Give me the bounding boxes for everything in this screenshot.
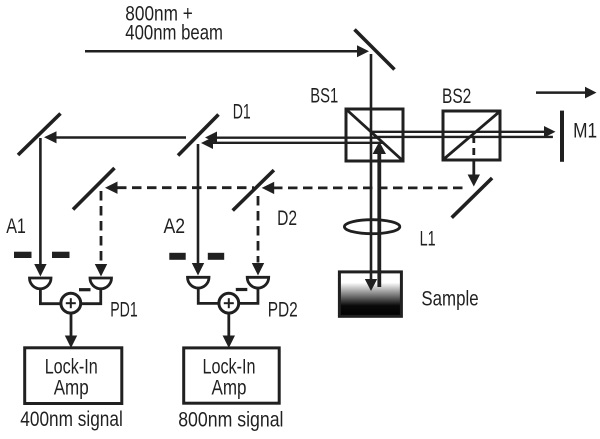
arrowhead up at BS1 diagonal	[373, 142, 386, 155]
svg-text:400nm signal: 400nm signal	[20, 408, 123, 431]
sample cell	[339, 272, 401, 316]
svg-text:Amp: Amp	[212, 376, 247, 399]
wire: left vertical beam (400nm arm)	[39, 138, 42, 265]
aperture A1 right bar	[52, 252, 70, 258]
wire: dashed segment inside BS2 going down	[472, 136, 475, 160]
svg-text:PD2: PD2	[268, 299, 298, 322]
mirror: pickoff below BS2	[452, 178, 492, 218]
svg-text:D1: D1	[233, 101, 251, 124]
svg-text:BS2: BS2	[442, 85, 471, 108]
mirror: small pickoff mirror (dashed 800nm arm, left)	[73, 168, 115, 210]
wire: dashed vertical into PD1 right detector	[100, 191, 103, 263]
svg-text:Lock-In: Lock-In	[203, 355, 256, 378]
dichroic mirror D1	[178, 115, 219, 156]
svg-text:800nm signal: 800nm signal	[178, 408, 283, 431]
beamsplitter BS1	[346, 109, 403, 161]
wire: D1 to left mirror	[56, 136, 186, 139]
wire: beam BS1 to M1 (top of pair)	[371, 131, 545, 133]
wire: beam BS1 to D1 (top of left pair)	[215, 136, 378, 138]
summer circle PD2	[219, 293, 239, 313]
aperture A1 left bar	[14, 252, 32, 258]
wire: dashed vertical below D2	[257, 196, 260, 263]
aperture A2 right bar	[208, 253, 224, 260]
wire: dashed horizontal beam (left segment, D2 to left pickoff)	[117, 186, 254, 189]
minus sign PD1	[79, 288, 91, 291]
wire: dashed horizontal beam (right segment, BS2 mirror to D2)	[273, 186, 467, 189]
svg-text:BS1: BS1	[310, 85, 338, 108]
svg-text:Lock-In: Lock-In	[45, 355, 98, 378]
minus sign PD2	[236, 288, 248, 291]
wire: beam BS1 to D1 (bottom of left pair)	[211, 142, 383, 144]
wire: return beam M1 to BS1 (bottom of pair)	[376, 136, 553, 138]
detector PD2 right photodiode	[247, 277, 269, 288]
arrowhead at D1 bottom	[201, 137, 213, 149]
svg-text:M1: M1	[573, 120, 597, 143]
arrowhead into sample	[365, 279, 377, 291]
mirror top-left	[18, 114, 61, 156]
label: 800nm + 400nm beam	[125, 2, 223, 44]
detector PD1 right photodiode	[90, 278, 112, 289]
wire: PD1 right photodiode to summer	[82, 289, 101, 304]
svg-text:400nm beam: 400nm beam	[125, 22, 223, 45]
wire: PD1 summer to lock-in amp	[70, 313, 73, 337]
wire: PD1 left photodiode to summer	[40, 289, 60, 304]
wire: PD2 left photodiode to summer	[198, 288, 218, 303]
aperture A2 left bar	[169, 253, 185, 260]
svg-text:A1: A1	[6, 215, 26, 238]
wire: vertical beam from fold mirror to sample	[370, 54, 373, 281]
svg-text:Amp: Amp	[54, 376, 89, 399]
lock-in amplifier 1	[25, 348, 122, 404]
lens L1	[344, 220, 399, 234]
arrowhead at D1 top	[205, 132, 217, 144]
svg-text:PD1: PD1	[110, 299, 138, 322]
wire: output arrow top right	[536, 91, 586, 94]
beamsplitter BS2	[443, 111, 500, 160]
dichroic mirror D2	[233, 170, 274, 210]
mirror M1	[560, 111, 564, 162]
svg-text:A2: A2	[164, 215, 186, 238]
wire: return beam from sample up to BS1	[377, 150, 381, 287]
arrowhead at top fold mirror	[357, 45, 369, 57]
arrowhead into PD1 left detector	[34, 264, 46, 277]
wire: solid segment from BS2 down to pickoff	[472, 160, 475, 176]
wire: PD2 summer to lock-in amp	[227, 313, 230, 337]
svg-text:Sample: Sample	[421, 288, 478, 311]
wire: PD2 right photodiode to summer	[240, 288, 258, 303]
detector PD1 left photodiode	[30, 278, 52, 289]
detector PD2 left photodiode	[188, 277, 210, 288]
arrowhead at left pickoff	[105, 182, 118, 194]
arrowhead at left mirror	[44, 131, 57, 143]
wire: input beam horizontal	[85, 50, 358, 53]
svg-text:D2: D2	[277, 207, 297, 230]
wire: vertical beam below D1 (800nm arm solid)	[197, 144, 200, 264]
mirror: top fold mirror	[355, 30, 395, 70]
summer circle PD1	[61, 293, 81, 313]
lock-in amplifier 2	[184, 348, 280, 403]
arrowhead at M1	[544, 126, 556, 138]
svg-text:L1: L1	[420, 228, 436, 251]
arrowhead at D2	[262, 182, 275, 194]
